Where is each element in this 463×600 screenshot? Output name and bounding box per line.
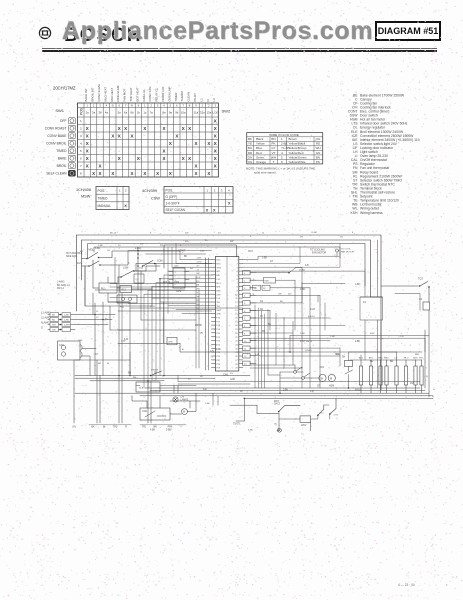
- svg-text:KSH: KSH: [351, 211, 359, 215]
- Bosch logo: [38, 26, 52, 40]
- svg-text:B-R: B-R: [370, 333, 374, 335]
- svg-text:4-BK: 4-BK: [150, 430, 156, 432]
- switch door lamp box: [140, 408, 170, 420]
- svg-text:X: X: [143, 171, 146, 176]
- svg-text:220V: 220V: [301, 425, 307, 427]
- svg-text:16A: 16A: [139, 267, 143, 270]
- svg-text:SELF CLEAN: SELF CLEAN: [166, 208, 186, 212]
- svg-text:VT: VT: [272, 151, 276, 155]
- svg-text:6-BK: 6-BK: [95, 248, 101, 250]
- svg-text:MHI: MHI: [216, 287, 220, 289]
- svg-text:4-GY: 4-GY: [300, 341, 306, 343]
- svg-text:FAN MOTOR: FAN MOTOR: [312, 252, 326, 255]
- svg-text:OPM: OPM: [176, 291, 181, 293]
- svg-text:Yellow/Black: Yellow/Black: [289, 142, 306, 146]
- wire cam link: [118, 266, 160, 283]
- wire left riser B: [85, 266, 110, 330]
- svg-text:Yellow/Green: Yellow/Green: [289, 155, 307, 159]
- wire subcircuit verticals right: [311, 405, 330, 419]
- svg-text:GN: GN: [72, 426, 76, 429]
- svg-text:8a: 8a: [162, 111, 166, 115]
- svg-text:BN: BN: [271, 137, 275, 141]
- wire mid horizontal h308: [130, 306, 243, 308]
- svg-text:7a: 7a: [150, 111, 154, 115]
- svg-text:GND: GND: [230, 379, 235, 381]
- wire right long band D: [260, 356, 340, 366]
- svg-text:X: X: [206, 208, 209, 212]
- wire subcircuit mid: [257, 405, 311, 430]
- wire mid band 2: [95, 289, 185, 291]
- svg-text:2-BK: 2-BK: [300, 333, 305, 335]
- switch HT1: [317, 405, 324, 416]
- svg-text:1-BK: 1-BK: [98, 245, 103, 247]
- svg-text:Brown: Brown: [289, 137, 298, 141]
- svg-text:X: X: [188, 156, 191, 161]
- svg-text:GND: GND: [216, 314, 221, 316]
- svg-text:TIMER: TIMER: [174, 93, 178, 102]
- svg-text:POS.: POS.: [166, 188, 174, 192]
- wire relay feeds: [93, 277, 152, 302]
- lamp L2 indicator: [275, 424, 282, 433]
- svg-text:BU: BU: [248, 146, 252, 150]
- wire top right drop: [371, 286, 419, 297]
- svg-text:TOP HEAT: TOP HEAT: [129, 87, 133, 101]
- svg-text:2: 2: [175, 276, 176, 278]
- svg-text:Yellow/Red: Yellow/Red: [289, 151, 304, 155]
- svg-text:1-0-300°F: 1-0-300°F: [166, 202, 180, 206]
- svg-text:20CH/17MZ: 20CH/17MZ: [53, 86, 76, 91]
- svg-text:X: X: [214, 156, 217, 161]
- svg-text:4 — 23 · 04: 4 — 23 · 04: [398, 583, 415, 587]
- svg-text:X: X: [188, 126, 191, 131]
- svg-text:LSW: LSW: [142, 411, 148, 413]
- svg-text:X: X: [169, 171, 172, 176]
- svg-text:HSM: HSM: [329, 386, 334, 388]
- control module EC outline top: [164, 245, 236, 268]
- terminal labels bottom-left: [89, 425, 186, 429]
- matrix mode icons: [68, 118, 75, 177]
- svg-text:CONT: CONT: [178, 249, 186, 253]
- svg-text:RdB: RdB: [265, 280, 270, 282]
- relay box K1 right: [360, 297, 383, 320]
- svg-text:solid wire same): solid wire same): [254, 171, 276, 175]
- svg-text:OG: OG: [316, 137, 321, 141]
- wire vertical v163: [163, 302, 165, 343]
- connector CN1 designator: [223, 372, 229, 376]
- svg-text:3b: 3b: [98, 111, 102, 115]
- resistor 220V box: [300, 416, 311, 427]
- svg-text:TCO: TCO: [418, 278, 423, 281]
- supply wire code boxes: [50, 313, 71, 332]
- svg-text:3: 3: [175, 280, 176, 282]
- svg-text:G: G: [433, 389, 435, 391]
- svg-text:RG: RG: [419, 358, 423, 360]
- svg-text:DC: DC: [263, 288, 267, 290]
- svg-text:BOT HEAT: BOT HEAT: [135, 87, 139, 101]
- svg-text:9b: 9b: [175, 111, 179, 115]
- matrix header row contact codes: [86, 111, 218, 115]
- thermal fuse F1: [419, 298, 429, 310]
- svg-text:3a: 3a: [92, 111, 96, 115]
- heating element MLO: [404, 358, 409, 394]
- wire connector bottom channel: [196, 276, 199, 368]
- relay RL2 box: [120, 286, 132, 293]
- svg-text:MANUAL: MANUAL: [98, 204, 112, 208]
- wire from plug to bus: [82, 349, 96, 376]
- svg-text:CN4: CN4: [59, 344, 64, 347]
- svg-text:4: 4: [175, 284, 176, 286]
- svg-text:BAKE: BAKE: [58, 157, 68, 161]
- svg-text:BK: BK: [91, 426, 95, 429]
- wire dlb link: [136, 385, 196, 387]
- wire lamp circuit feed: [132, 396, 200, 408]
- junction dots misc: [94, 263, 349, 400]
- svg-text:X: X: [124, 126, 127, 131]
- svg-text:MHI: MHI: [413, 358, 417, 360]
- wire inner boundary 2: [81, 240, 370, 297]
- door lock block DLB: [136, 382, 160, 392]
- svg-text:1-BK: 1-BK: [64, 315, 69, 317]
- svg-text:MSW: MSW: [81, 195, 91, 199]
- wire color code note: [246, 166, 315, 174]
- switch COM selector: [142, 261, 212, 267]
- svg-text:1-RD: 1-RD: [330, 336, 336, 338]
- svg-text:BK-14: BK-14: [110, 233, 117, 235]
- svg-text:GRILL EL: GRILL EL: [142, 89, 146, 102]
- svg-text:Yellow/White: Yellow/White: [289, 160, 306, 164]
- svg-text:•: •: [446, 584, 447, 587]
- svg-text:MPCB: MPCB: [195, 325, 202, 327]
- svg-text:SW1: SW1: [55, 108, 64, 113]
- svg-text:SELF CLEAN: SELF CLEAN: [46, 172, 67, 176]
- svg-text:6-GY: 6-GY: [216, 349, 222, 351]
- svg-text:1-R: 1-R: [310, 391, 314, 393]
- relay RSL box: [117, 295, 137, 309]
- svg-text:Yellow: Yellow: [256, 142, 265, 146]
- inline connector RDB: [250, 277, 295, 330]
- node N supply wire: [48, 324, 108, 326]
- wire outer boundary top/left/right: [77, 235, 382, 390]
- svg-text:SIDE AWG: SIDE AWG: [66, 255, 77, 258]
- svg-text:4-BU: 4-BU: [248, 430, 253, 432]
- svg-text:M: M: [321, 376, 323, 380]
- svg-text:T5/STL: T5/STL: [233, 424, 241, 426]
- svg-text:BK: BK: [248, 137, 252, 141]
- wire right mid horizontals: [360, 293, 420, 310]
- svg-text:PILOT: PILOT: [193, 93, 197, 102]
- svg-text:X: X: [99, 163, 102, 168]
- connector CN2 terminal boxes: [243, 271, 256, 366]
- svg-text:DLB: DLB: [139, 388, 144, 390]
- svg-text:Red: Red: [256, 151, 262, 155]
- svg-text:BE: BE: [370, 361, 374, 363]
- svg-text:X: X: [111, 171, 114, 176]
- component legend list: [348, 93, 420, 215]
- svg-text:6a: 6a: [124, 111, 128, 115]
- lamp L1 oven: [173, 397, 189, 403]
- svg-text:BN: BN: [133, 377, 136, 379]
- switch DWSW on bus: [150, 369, 162, 376]
- svg-text:GY: GY: [270, 261, 274, 263]
- svg-text:X: X: [86, 163, 89, 168]
- wire harness left fanout: [144, 260, 212, 314]
- svg-text:CONV ELEM: CONV ELEM: [97, 84, 101, 102]
- wire K1 feed: [243, 271, 365, 297]
- heating element MHI: [413, 358, 417, 394]
- wire latch motor link: [170, 393, 196, 414]
- svg-text:24C: 24C: [288, 293, 292, 295]
- svg-text:TIMED: TIMED: [56, 149, 67, 153]
- svg-text:BAKE INT: BAKE INT: [84, 88, 88, 101]
- connector CN1 wire code labels: [197, 258, 202, 314]
- wire lamp bottom labels: [150, 430, 172, 432]
- wire contact feeds right: [250, 365, 302, 371]
- label T5/STL: [233, 424, 241, 426]
- switch MDL door latch: [82, 249, 112, 260]
- connector CN1 body: [215, 257, 238, 372]
- svg-text:SACT: SACT: [274, 403, 281, 406]
- fuse block B1: [136, 264, 156, 272]
- svg-text:BR: BR: [390, 361, 394, 363]
- svg-text:WH: WH: [52, 325, 56, 327]
- matrix row labels and contact X marks: [45, 118, 217, 175]
- svg-text:6-R: 6-R: [203, 389, 207, 391]
- svg-text:X: X: [111, 133, 114, 138]
- svg-text:4-B 24: 4-B 24: [308, 316, 315, 318]
- svg-text:X: X: [99, 171, 102, 176]
- svg-text:WH: WH: [316, 146, 321, 150]
- svg-text:Black: Black: [256, 137, 264, 141]
- capacitor box C1: [134, 274, 144, 283]
- svg-text:2a: 2a: [86, 111, 90, 115]
- heating element BR2: [384, 358, 389, 394]
- svg-text:X: X: [143, 126, 146, 131]
- wire right long band B: [250, 338, 425, 352]
- heating element RG: [419, 358, 423, 394]
- thermal cutout TCO: [418, 278, 430, 303]
- connector CN3 body: [169, 266, 189, 289]
- heating element CV: [394, 358, 398, 394]
- svg-text:3-WH: 3-WH: [64, 325, 70, 327]
- svg-text:L1: L1: [199, 98, 203, 102]
- footer page mark: [398, 583, 447, 587]
- svg-text:1-BN: 1-BN: [355, 284, 361, 286]
- svg-text:X: X: [214, 133, 217, 138]
- switch matrix table SW1/SW2 grid: [78, 103, 219, 177]
- svg-text:LCK: LCK: [212, 111, 218, 115]
- svg-text:BN: BN: [153, 426, 157, 429]
- svg-text:TRM: TRM: [216, 267, 221, 269]
- svg-text:PK: PK: [316, 160, 320, 164]
- svg-text:2-BK: 2-BK: [281, 142, 288, 146]
- wire bottom bus 2: [150, 390, 425, 392]
- svg-text:L2 AWG: L2 AWG: [41, 316, 51, 320]
- wire riser with junction dots: [137, 247, 139, 290]
- wire bottom bus 3: [75, 392, 429, 394]
- svg-text:BN 24: BN 24: [306, 341, 313, 343]
- wire right long band A: [290, 336, 429, 353]
- wire net row2 right: [243, 247, 300, 263]
- svg-text:CV: CV: [394, 358, 398, 360]
- wire below plug: [73, 360, 75, 423]
- wire door switch feeds: [112, 251, 180, 265]
- svg-text:L1 AWG: L1 AWG: [41, 311, 51, 315]
- svg-text:10a: 10a: [181, 111, 186, 115]
- wire right drop x302: [302, 284, 325, 388]
- svg-text:X: X: [195, 141, 198, 146]
- svg-text:GY: GY: [107, 250, 111, 252]
- connector CN2 terminal labels: [244, 273, 247, 366]
- svg-text:CLEAN: CLEAN: [187, 92, 191, 102]
- svg-text:2-RD: 2-RD: [64, 320, 70, 322]
- svg-text:MDL: MDL: [89, 249, 95, 252]
- wire mid band ALB: [110, 281, 196, 284]
- wire long mid horizontal: [118, 343, 210, 352]
- svg-text:1-BK: 1-BK: [262, 257, 268, 259]
- svg-text:BROIL INT: BROIL INT: [91, 87, 95, 101]
- wire mid horizontal h311: [118, 310, 212, 312]
- svg-text:LAMPS: LAMPS: [181, 399, 189, 402]
- svg-text:GY-BN: GY-BN: [305, 350, 312, 352]
- svg-text:2-BN: 2-BN: [166, 430, 172, 432]
- svg-text:MLO: MLO: [216, 283, 221, 285]
- wire color code table: [247, 133, 323, 164]
- wire low-left horizontal: [75, 352, 130, 376]
- svg-text:4a: 4a: [105, 111, 109, 115]
- wire h297: [110, 297, 196, 299]
- wire inner boundary 3: [88, 244, 365, 287]
- watermark: [62, 17, 373, 46]
- svg-text:B-R: B-R: [336, 354, 340, 356]
- svg-text:GN: GN: [316, 151, 321, 155]
- svg-text:X: X: [92, 171, 95, 176]
- svg-text:BN: BN: [316, 155, 320, 159]
- wire resistor link: [279, 418, 300, 420]
- svg-text:FAN MOT: FAN MOT: [123, 88, 127, 101]
- svg-text:POS.: POS.: [98, 189, 106, 193]
- svg-text:RD 14: RD 14: [57, 287, 64, 290]
- wire net rows lower: [250, 318, 345, 363]
- svg-text:X: X: [86, 156, 89, 161]
- wire harness left risers: [144, 244, 180, 389]
- svg-text:X: X: [182, 126, 185, 131]
- switch latch cam: [118, 267, 146, 278]
- wire bottom left verticals: [97, 330, 178, 423]
- node GND supply wire: [48, 329, 75, 331]
- svg-text:BROIL: BROIL: [57, 164, 67, 168]
- switch table MSW (1CH/406): [96, 187, 129, 210]
- labels above top border: [110, 232, 354, 234]
- svg-text:COM: COM: [157, 261, 162, 263]
- svg-text:2-GY: 2-GY: [150, 306, 156, 308]
- svg-text:M: M: [183, 411, 185, 414]
- svg-text:OFF: OFF: [60, 119, 67, 123]
- wire mid-left grid: [85, 258, 141, 376]
- svg-text:X: X: [163, 126, 166, 131]
- svg-text:Orange: Orange: [256, 160, 266, 164]
- svg-text:X: X: [86, 126, 89, 131]
- wire right long band C: [210, 351, 422, 353]
- thermostat TH oven: [342, 357, 353, 375]
- matrix header row contact numbers: [86, 103, 216, 107]
- svg-text:11a: 11a: [194, 111, 199, 115]
- svg-text:WH: WH: [271, 155, 276, 159]
- svg-text:BN: BN: [279, 293, 282, 295]
- wire bus step: [178, 376, 420, 385]
- matrix column pin labels (rotated): [84, 84, 216, 102]
- svg-text:MLO HEAT: MLO HEAT: [103, 87, 107, 102]
- svg-text:DLS: DLS: [77, 262, 82, 265]
- svg-text:1b: 1b: [137, 111, 141, 115]
- module CPM box: [167, 337, 177, 345]
- svg-text:1CH/406: 1CH/406: [76, 188, 91, 192]
- wire net row short: [250, 310, 270, 330]
- svg-text:X: X: [182, 156, 185, 161]
- node L1 supply wire: [48, 314, 115, 316]
- svg-text:9a: 9a: [169, 111, 173, 115]
- fan feed symbol: [335, 249, 354, 257]
- svg-text:M: M: [330, 376, 332, 380]
- svg-text:X: X: [86, 148, 89, 153]
- wire net row3 right: [243, 244, 340, 268]
- node L2 supply wire: [48, 319, 112, 321]
- wire h287: [110, 286, 196, 288]
- svg-text:Yellow/Brown: Yellow/Brown: [289, 146, 307, 150]
- wire contact links: [280, 372, 319, 393]
- svg-text:LSW: LSW: [123, 267, 129, 270]
- svg-text:X: X: [195, 171, 198, 176]
- svg-text:X: X: [214, 126, 217, 131]
- relay contact RC2: [302, 373, 310, 379]
- svg-text:X: X: [156, 171, 159, 176]
- svg-text:TH: TH: [342, 357, 345, 359]
- svg-text:24-R: 24-R: [310, 309, 315, 311]
- scattered labels 2: [78, 236, 435, 391]
- svg-text:X: X: [195, 163, 198, 168]
- svg-text:DOOR LCK: DOOR LCK: [161, 86, 165, 101]
- svg-text:Wiring harness: Wiring harness: [360, 211, 383, 215]
- wire right bundle verticals: [268, 310, 293, 375]
- wire drop pair to KOPL: [213, 393, 218, 405]
- svg-text:2-BN: 2-BN: [300, 289, 306, 291]
- svg-text:N: N: [206, 99, 210, 101]
- svg-text:X: X: [137, 156, 140, 161]
- wire h303: [128, 303, 196, 305]
- relay contact RC1: [294, 367, 302, 373]
- svg-text:4-B: 4-B: [305, 265, 309, 267]
- wire vertical bundle right of CN1: [255, 305, 265, 388]
- wire right column drop: [425, 310, 429, 397]
- svg-text:2-BK: 2-BK: [205, 403, 210, 405]
- svg-text:CONV ROAST: CONV ROAST: [45, 127, 67, 131]
- svg-text:GY: GY: [271, 146, 275, 150]
- svg-text:X: X: [214, 163, 217, 168]
- svg-text:X: X: [86, 133, 89, 138]
- svg-text:X: X: [163, 148, 166, 153]
- svg-text:X: X: [118, 126, 121, 131]
- heating element BR1: [378, 358, 383, 394]
- connector CN1 pin labels: [216, 260, 238, 370]
- svg-text:RD: RD: [52, 320, 56, 322]
- relay contact right K: [250, 268, 345, 284]
- wire net row BN: [250, 293, 320, 388]
- wire top bus 4: [94, 247, 340, 258]
- svg-text:2R: 2R: [300, 237, 303, 239]
- svg-text:THERM: THERM: [180, 91, 184, 102]
- svg-text:R: R: [125, 426, 127, 429]
- svg-text:1-BK: 1-BK: [312, 232, 317, 234]
- svg-text:LMP: LMP: [216, 294, 221, 296]
